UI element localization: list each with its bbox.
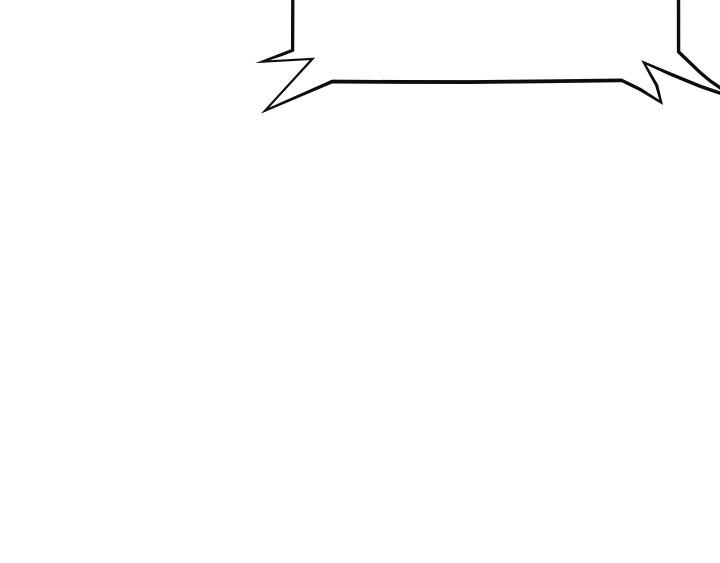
speech bubble (jagged shout bubble outline, cut off at top edge) xyxy=(0,0,1,1)
